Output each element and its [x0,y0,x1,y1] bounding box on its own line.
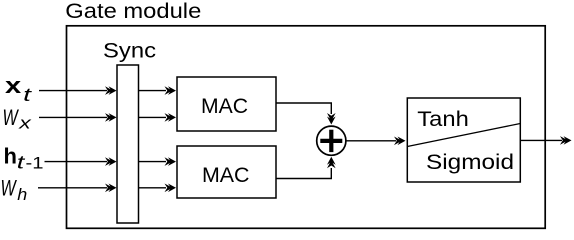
sync block [117,65,139,223]
wire: W_h input into Sync [38,187,107,189]
svg-text:x: x [5,73,22,98]
MAC block 2 [177,146,276,198]
wire: x_t input into Sync [39,90,107,92]
wire: MAC1 output to adder (down) [276,103,331,114]
svg-text:MAC: MAC [201,94,248,118]
svg-text:-1: -1 [26,154,44,172]
wire: Sync to MAC2 input a [139,161,167,163]
svg-text:MAC: MAC [202,163,250,187]
wire: Sync to MAC2 input b [139,187,167,189]
MAC block 1 [177,77,276,131]
svg-text:h: h [4,144,17,169]
svg-text:x: x [18,115,32,133]
wire: W_x input into Sync [39,116,107,118]
svg-text:W: W [1,176,18,201]
wire: Sync to MAC1 input a [139,90,167,92]
outer box: Gate module enclosure [67,26,546,229]
wire: h_t-1 input into Sync [45,161,108,163]
svg-text:Gate module: Gate module [65,0,201,23]
svg-text:Tanh: Tanh [417,107,469,131]
wire: MAC2 output to adder (up) [276,168,331,179]
svg-text:Sigmoid: Sigmoid [426,150,514,174]
svg-text:Sync: Sync [103,38,156,62]
wire: adder output to activation block [346,140,396,142]
adder node (circle with plus) [317,126,346,155]
activation block (Tanh / Sigmoid) [407,98,520,182]
wire: final output [520,139,562,141]
svg-text:h: h [17,186,27,204]
divider diagonal inside activation block [407,124,520,147]
svg-text:W: W [3,105,20,130]
wire: Sync to MAC1 input b [139,116,167,118]
